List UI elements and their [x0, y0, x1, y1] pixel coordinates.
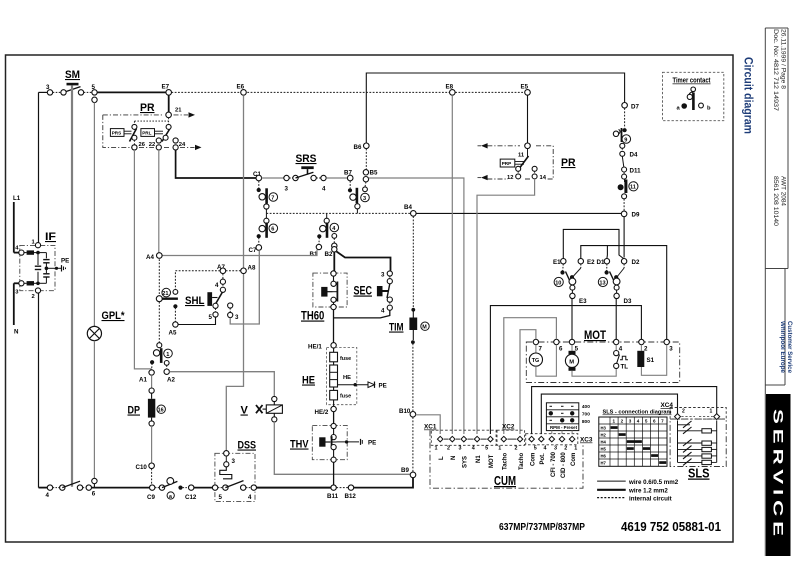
terminal 7 [533, 339, 542, 352]
node L1 lead [13, 195, 21, 253]
node E7 [162, 84, 172, 96]
svg-text:fuse: fuse [340, 356, 351, 362]
wire B5 right then down to XC1-3 [369, 178, 464, 434]
wire: B6 up, over to D7 [366, 73, 624, 143]
pump DP [128, 375, 166, 463]
svg-text:B11: B11 [327, 493, 339, 500]
svg-text:1: 1 [710, 409, 713, 415]
svg-text:21: 21 [162, 291, 168, 297]
node B1 [310, 244, 322, 257]
svg-text:D1: D1 [597, 259, 605, 266]
wire D3 down to MOT terminal 4 [615, 299, 617, 340]
svg-text:4: 4 [248, 494, 252, 501]
wire: SHL5 down, left to A5 [178, 317, 216, 324]
timer contact 11 [618, 179, 638, 211]
node A2 [164, 369, 175, 384]
svg-text:PR: PR [561, 157, 576, 169]
svg-text:3: 3 [285, 186, 289, 193]
svg-text:B6: B6 [354, 144, 362, 151]
svg-text:22: 22 [149, 142, 155, 148]
svg-text:3: 3 [235, 314, 239, 321]
wire: motor feed XC1-5 to S1 terminal 2 [490, 306, 641, 434]
svg-text:D2: D2 [632, 259, 640, 266]
connector XC4 [661, 402, 727, 420]
svg-text:13: 13 [599, 280, 605, 286]
thermostat SEC [334, 252, 393, 318]
svg-text:H3: H3 [601, 426, 607, 431]
wire E7 to PR21 [168, 95, 170, 112]
svg-text:HE: HE [302, 375, 315, 387]
node D1 [597, 259, 610, 267]
wire: E2 cross-wire to D1 and to SLS column [581, 246, 667, 340]
svg-text:Tacho: Tacho [519, 452, 525, 470]
node A4 [146, 253, 162, 261]
svg-text:4: 4 [381, 308, 385, 315]
filter IF [15, 231, 58, 300]
node E1 [553, 259, 566, 267]
wire: XC3-4 Pot up and right to XC4 [541, 394, 677, 434]
switch SRS [253, 153, 348, 193]
svg-text:L: L [439, 456, 445, 460]
relay PR (right) [478, 143, 576, 181]
node N lead [14, 283, 19, 335]
relay PR [103, 102, 202, 150]
wire: SHL3 right and up to C7 [230, 250, 259, 324]
node B4 [404, 204, 416, 216]
svg-text:5: 5 [485, 446, 488, 452]
wire [97, 91, 166, 93]
svg-text:Whirlpool Europe: Whirlpool Europe [779, 321, 786, 373]
svg-text:THV: THV [290, 439, 309, 451]
node A7 [217, 264, 226, 274]
table SLS - connection diagram [599, 410, 672, 467]
timer contact 1 [150, 302, 172, 370]
wire: PR 24 down then right to C1 (SRS feed) [176, 150, 257, 178]
svg-text:M: M [569, 359, 574, 365]
wire: rail B4 to D9 solid [416, 212, 622, 214]
node E2 [578, 259, 595, 267]
svg-text:A1: A1 [139, 377, 147, 384]
svg-text:11: 11 [630, 185, 636, 191]
svg-text:4: 4 [619, 346, 623, 353]
wire: dotted main rail E7-E6-E8-E5 [171, 91, 524, 93]
svg-text:2: 2 [682, 409, 685, 415]
svg-text:10: 10 [555, 280, 561, 286]
svg-text:SM: SM [65, 69, 80, 81]
wire: A2 right then down to valve V [169, 372, 274, 397]
motor M [565, 345, 616, 377]
svg-text:B4: B4 [404, 204, 412, 211]
legend wire types [597, 479, 679, 503]
svg-text:A8: A8 [248, 265, 256, 272]
svg-text:3: 3 [554, 446, 557, 452]
svg-text:C10: C10 [136, 464, 148, 471]
svg-text:PRL: PRL [142, 131, 151, 136]
svg-text:fuse: fuse [340, 394, 351, 400]
tacho TG [529, 345, 556, 377]
svg-text:6: 6 [92, 491, 96, 498]
wire: E8 down to XC1-2 [451, 95, 453, 434]
terminal 4 [614, 339, 623, 352]
resistor S1 [637, 345, 666, 376]
svg-text:8561 208 10140: 8561 208 10140 [772, 176, 778, 227]
wire: dotted A7-A8 rail and down to contact 21 stub [226, 270, 241, 272]
timer contact 3 [348, 181, 369, 214]
thermostat TH60 [301, 252, 347, 343]
svg-text:3: 3 [381, 272, 385, 279]
svg-text:E3: E3 [579, 298, 587, 305]
svg-text:XC3: XC3 [580, 437, 593, 444]
terminal 3 [664, 339, 673, 352]
svg-text:12: 12 [507, 175, 513, 181]
svg-text:TIM: TIM [389, 322, 404, 334]
svg-text:B2: B2 [325, 251, 333, 258]
svg-text:4619 752 05881-01: 4619 752 05881-01 [621, 519, 721, 534]
node C10 [136, 463, 155, 471]
svg-text:21: 21 [175, 108, 182, 114]
svg-text:4: 4 [544, 446, 547, 452]
svg-text:SEC: SEC [354, 286, 373, 298]
svg-text:XC2: XC2 [502, 424, 515, 431]
wire D9 down to D2 [623, 217, 625, 258]
svg-text:11: 11 [518, 153, 525, 159]
svg-text:b: b [707, 106, 711, 112]
connector XC2 [497, 424, 525, 471]
svg-text:B10: B10 [399, 408, 411, 415]
svg-text:H7: H7 [601, 461, 607, 466]
node D4 [620, 148, 638, 167]
wire: rail C9 to C12 with pump switch [147, 478, 212, 501]
wire: dotted rail (contact 6/7 common to B4) [266, 212, 411, 214]
svg-text:4: 4 [637, 419, 640, 424]
svg-text:1: 1 [574, 446, 577, 452]
timer contact 6 [257, 213, 278, 244]
timer motor TIM [389, 216, 429, 411]
svg-text:H2: H2 [601, 433, 607, 438]
svg-text:HE/2: HE/2 [315, 409, 329, 416]
timer contact 7 [257, 181, 278, 214]
svg-text:DSS: DSS [238, 440, 257, 452]
wire: A7 down to SHL 4 [222, 274, 224, 280]
svg-text:a: a [169, 494, 172, 500]
svg-text:4: 4 [322, 186, 326, 193]
svg-text:D4: D4 [630, 152, 638, 159]
node D7 [622, 103, 640, 111]
svg-text:4: 4 [215, 282, 219, 289]
svg-text:14: 14 [540, 175, 547, 181]
svg-text:3: 3 [629, 419, 632, 424]
svg-text:CFI - 700: CFI - 700 [551, 451, 557, 477]
svg-text:E1: E1 [553, 259, 561, 266]
node D11 [622, 167, 641, 179]
node B10 [399, 408, 416, 417]
lamp GPL* [87, 103, 125, 479]
svg-text:M: M [422, 325, 427, 331]
wire: B6-B5 dotted [365, 149, 367, 170]
svg-text:3: 3 [669, 346, 673, 353]
svg-text:RPM - Preset: RPM - Preset [550, 425, 578, 430]
svg-text:HE/1: HE/1 [308, 344, 322, 351]
svg-text:MOT: MOT [489, 454, 495, 468]
wire: tacho to XC2-1 [504, 318, 557, 434]
wire B10 dotted down to B9 [412, 417, 414, 472]
svg-text:SRS: SRS [296, 153, 317, 165]
svg-text:4: 4 [46, 492, 50, 499]
wire: XC3-5 Com up and right to XC4 [532, 387, 717, 434]
node C7 [249, 245, 262, 254]
svg-text:AWT 2084: AWT 2084 [780, 176, 786, 207]
node D2 [621, 259, 640, 267]
svg-text:A4: A4 [146, 254, 154, 261]
switch SM [46, 69, 97, 103]
svg-text:PE: PE [379, 383, 387, 390]
svg-text:700: 700 [582, 411, 590, 417]
node E8 [446, 84, 456, 96]
timer contact 9 [613, 108, 630, 148]
svg-text:3: 3 [363, 196, 366, 202]
wire: vertical from SM-3 down to IF pin 1 [38, 92, 40, 242]
timer contact 21 [156, 256, 178, 322]
wire B11-B12 dotted, then to B9 corner [336, 487, 348, 489]
svg-text:2: 2 [32, 294, 35, 300]
svg-text:PE: PE [368, 440, 376, 447]
svg-text:internal circuit: internal circuit [629, 495, 672, 502]
svg-text:Doc. No: 4812 712 14937: Doc. No: 4812 712 14937 [772, 29, 778, 112]
node B2 [325, 243, 337, 258]
svg-text:H6: H6 [601, 454, 607, 459]
terminal 6 [554, 339, 563, 352]
svg-text:2: 2 [515, 446, 518, 452]
svg-text:A5: A5 [169, 330, 177, 337]
svg-text:L1: L1 [13, 195, 21, 202]
node D9 [621, 211, 640, 218]
svg-text:TH60: TH60 [301, 311, 324, 323]
svg-text:TG: TG [532, 358, 540, 364]
thermal valve THV [290, 412, 376, 485]
svg-text:SERVICE: SERVICE [771, 409, 786, 541]
wire E3 down to MOT terminal 5 [571, 299, 573, 340]
svg-text:7: 7 [539, 346, 543, 353]
thermal protector TL [614, 345, 629, 371]
svg-text:1: 1 [435, 446, 438, 452]
svg-text:400: 400 [582, 404, 590, 410]
wire A4 to B1 [162, 250, 318, 256]
node E5 [521, 84, 531, 96]
wire E5 down to PR 11 [527, 95, 529, 143]
svg-text:PE: PE [61, 258, 69, 265]
margin separator lines [764, 28, 766, 556]
svg-text:XC1: XC1 [424, 424, 437, 431]
svg-text:SYS: SYS [463, 456, 469, 468]
svg-text:26.11.1999 / Page 8: 26.11.1999 / Page 8 [780, 29, 786, 90]
selector switch SLS [670, 419, 726, 480]
svg-text:Customer Service: Customer Service [786, 321, 793, 373]
svg-text:1: 1 [613, 419, 616, 424]
svg-text:7: 7 [271, 195, 274, 201]
svg-text:GPL*: GPL* [102, 310, 126, 322]
svg-text:1: 1 [166, 352, 169, 358]
svg-text:5: 5 [219, 494, 223, 501]
svg-text:9: 9 [624, 137, 627, 143]
legend: timer contact [663, 72, 724, 120]
timer contact 4 [317, 213, 338, 244]
svg-text:B5: B5 [370, 170, 378, 177]
svg-text:E2: E2 [587, 259, 595, 266]
svg-text:D7: D7 [631, 104, 639, 111]
svg-text:D9: D9 [632, 212, 640, 219]
svg-text:B9: B9 [401, 467, 409, 474]
svg-text:DP: DP [128, 405, 141, 417]
wire: bottom rail left segment with door switch [39, 481, 150, 499]
node A8 [241, 265, 256, 274]
svg-text:5: 5 [534, 446, 537, 452]
node B5 [363, 170, 378, 182]
ground PE at IF [57, 258, 70, 272]
control unit CUM box [430, 430, 583, 488]
svg-text:SLS: SLS [688, 467, 710, 481]
svg-text:16: 16 [158, 408, 164, 414]
connector XC1 [424, 424, 496, 469]
svg-text:N: N [14, 329, 19, 336]
svg-text:6: 6 [271, 227, 274, 233]
svg-text:Com: Com [530, 453, 536, 466]
terminal 2 [639, 339, 648, 352]
wire from SM terminal 3 to left vertical [39, 91, 48, 93]
svg-text:24: 24 [179, 142, 186, 148]
valve V [241, 396, 283, 422]
svg-text:CID - 800: CID - 800 [561, 452, 567, 478]
svg-text:Tacho: Tacho [503, 452, 509, 470]
wire: PR 22 down to A4 [158, 150, 160, 253]
svg-text:3: 3 [232, 458, 236, 465]
svg-text:Circuit diagram: Circuit diagram [742, 57, 756, 134]
svg-text:Timer contact: Timer contact [673, 78, 712, 85]
node A1 [139, 370, 154, 384]
node D3 [614, 293, 632, 305]
svg-text:wire 0.6/0.5 mm2: wire 0.6/0.5 mm2 [628, 479, 679, 486]
svg-text:4: 4 [472, 446, 475, 452]
svg-text:MOT: MOT [584, 330, 606, 342]
node B11 [327, 485, 339, 500]
timer contact 10 [554, 264, 581, 293]
svg-text:wire 1.2 mm2: wire 1.2 mm2 [628, 488, 668, 495]
svg-text:TL: TL [621, 364, 629, 371]
svg-text:C9: C9 [147, 494, 155, 501]
node B12 [345, 485, 357, 500]
svg-text:H5: H5 [601, 447, 607, 452]
svg-text:D3: D3 [624, 298, 632, 305]
svg-text:N: N [451, 456, 457, 460]
svg-text:S1: S1 [647, 357, 655, 364]
terminal 5 [569, 339, 578, 352]
svg-text:PRP: PRP [502, 161, 511, 166]
svg-text:637MP/737MP/837MP: 637MP/737MP/837MP [499, 522, 585, 533]
node 6 (lamp to rail) [92, 478, 97, 497]
wire: E6 down through A8 then to DSS-3 [226, 95, 243, 451]
pressure switch DSS [212, 440, 256, 502]
solenoid SHL [185, 279, 239, 321]
SERVICE block [766, 394, 791, 556]
svg-text:SHL: SHL [185, 295, 205, 307]
svg-text:D11: D11 [630, 168, 642, 175]
svg-text:A2: A2 [167, 377, 175, 384]
svg-text:PRS: PRS [112, 131, 121, 136]
node E3 [570, 293, 587, 305]
motor MOT box [526, 330, 679, 383]
svg-text:B12: B12 [345, 493, 357, 500]
wire: IF pin2 down to bottom-left corner [38, 293, 40, 488]
svg-text:2: 2 [447, 446, 450, 452]
svg-text:2: 2 [564, 446, 567, 452]
svg-text:SLS - connection diagram: SLS - connection diagram [603, 410, 672, 416]
svg-text:2: 2 [644, 346, 648, 353]
node E6 [237, 84, 247, 96]
svg-text:V: V [241, 405, 249, 417]
wire: SM body vertical (thick gray) [71, 85, 73, 486]
svg-text:7: 7 [661, 419, 664, 424]
wire: V down then right to B9 [274, 422, 410, 474]
svg-text:2: 2 [621, 419, 624, 424]
svg-text:1: 1 [498, 446, 501, 452]
svg-text:800: 800 [582, 419, 590, 425]
node B7 [344, 170, 353, 181]
svg-text:Pot.: Pot. [540, 453, 546, 465]
svg-text:C12: C12 [185, 494, 197, 501]
wire: PR 26 down then to A1 [134, 150, 151, 370]
wire: tacho to XC2-2 [520, 330, 536, 434]
wire: rail DSS to B11 (thick) [257, 487, 331, 489]
wire: PR 14 down-left-down to XC1-4 [477, 179, 535, 434]
node B9 [401, 467, 416, 478]
svg-text:CUM: CUM [494, 474, 516, 488]
svg-text:IF: IF [45, 231, 56, 243]
svg-text:3: 3 [459, 446, 462, 452]
wire C10 dotted down to C9 [151, 469, 153, 485]
svg-text:N1: N1 [476, 455, 482, 463]
timer contact 13 [598, 264, 624, 293]
svg-text:HE: HE [343, 375, 351, 381]
svg-text:6: 6 [559, 346, 563, 353]
svg-text:26: 26 [139, 142, 146, 148]
connector XC3 [526, 434, 593, 478]
svg-text:5: 5 [209, 314, 213, 321]
svg-text:H4: H4 [601, 440, 607, 445]
svg-text:Com: Com [571, 453, 577, 466]
RPM preset table [546, 403, 590, 434]
node B6 [354, 143, 370, 151]
wire: E1 cross-wire to D2 [563, 229, 624, 259]
node A5 [169, 322, 179, 337]
svg-text:6: 6 [653, 419, 656, 424]
svg-text:5: 5 [645, 419, 648, 424]
heater HE with fuses [302, 343, 387, 416]
wire B10 right to XC1-1 [416, 415, 441, 434]
svg-text:PR: PR [140, 102, 155, 114]
